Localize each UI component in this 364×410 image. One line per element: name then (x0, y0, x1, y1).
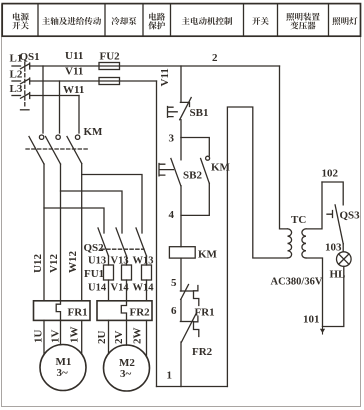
svg-text:KM: KM (198, 249, 218, 261)
wire W11 drop to KM (78, 96, 80, 134)
node L3 lead (12, 95, 21, 97)
motor M2 circle (104, 345, 150, 391)
svg-text:SB1: SB1 (190, 107, 209, 119)
svg-text:2: 2 (212, 52, 218, 64)
wire node 1 (180, 342, 182, 387)
svg-text:SB2: SB2 (183, 170, 202, 182)
svg-text:2U: 2U (96, 331, 108, 345)
wire V11 drop to KM (59, 81, 61, 133)
svg-text:HL: HL (330, 269, 346, 281)
switch QS1 pole 1 blade (21, 63, 30, 69)
fuse FU1-2 (122, 265, 132, 280)
wire TC secondary bottom to node 101 (306, 258, 323, 327)
fuse FU2-1 (99, 63, 120, 70)
wire TC secondary top to node 102 (306, 182, 322, 229)
svg-text:AC380/36V: AC380/36V (271, 277, 323, 288)
svg-text:KM: KM (211, 162, 231, 174)
fuse FU1-1 (104, 265, 114, 280)
header cell: cooling pump label (111, 17, 136, 25)
wire U11 drop to KM (42, 66, 44, 133)
node L2 lead (12, 80, 21, 82)
switch QS1 linkage dashed (24, 62, 26, 108)
svg-text:5: 5 (171, 277, 177, 289)
wire 1U (43, 320, 45, 354)
wire W13 (146, 256, 148, 265)
wire 1V (60, 320, 62, 344)
header cell: main motor control label (182, 17, 232, 25)
wire U12 tap to QS2 (44, 208, 104, 233)
svg-text:W13: W13 (133, 256, 154, 267)
switch QS2 pole 2 blade (116, 228, 127, 256)
switch QS2 linkage dashed (101, 248, 144, 250)
wire V13 (126, 256, 128, 265)
svg-text:U14: U14 (88, 283, 107, 294)
overload relay FR2 heater box (97, 301, 152, 321)
svg-text:V12: V12 (48, 254, 60, 273)
header cell: power switch label (12, 13, 357, 30)
svg-text:U11: U11 (65, 50, 83, 62)
svg-text:103: 103 (325, 242, 342, 254)
svg-text:4: 4 (169, 209, 175, 221)
fuse FU1-3 (142, 265, 152, 280)
header cell: lighting transformer label (286, 13, 320, 21)
wire W14 (146, 280, 148, 301)
wire W12 tap to QS2 (82, 175, 142, 234)
svg-text:V11: V11 (159, 68, 171, 86)
wire 2V (126, 320, 128, 345)
switch QS2 pole 1 blade (98, 228, 109, 256)
header table grid (2, 4, 360, 37)
wire riser to TC primary (227, 107, 287, 387)
svg-text:101: 101 (303, 314, 320, 326)
contactor KM auxiliary contact (201, 156, 210, 183)
wire W12 (81, 164, 83, 301)
node L1 lead (12, 65, 21, 67)
wire W11 (30, 95, 79, 97)
thermal contact FR1 (180, 285, 198, 306)
svg-text:1W: 1W (69, 327, 81, 344)
header cell: lighting lamp label (332, 17, 357, 25)
svg-text:TC: TC (291, 214, 306, 226)
svg-text:QS3: QS3 (340, 210, 361, 222)
wire V11 control drop (156, 81, 158, 387)
thermal contact FR2 (180, 314, 198, 342)
svg-text:6: 6 (171, 305, 177, 317)
wire U12 (43, 164, 45, 301)
wire U11 (30, 65, 280, 67)
svg-text:102: 102 (322, 168, 339, 180)
wire node 102 rail (322, 182, 343, 205)
header cell: spindle & feed drive label (42, 17, 101, 25)
wire node2 to TC primary top (280, 66, 288, 229)
svg-text:W12: W12 (67, 251, 79, 274)
wire lamp to node 101 (323, 266, 344, 326)
contactor KM main pole 3 (67, 135, 82, 164)
svg-text:FU1: FU1 (84, 268, 104, 280)
switch QS3 (327, 205, 343, 244)
header cell: switch label (252, 17, 268, 25)
wire 2W (146, 320, 148, 356)
wire V14 (126, 280, 128, 301)
svg-text:L2: L2 (10, 69, 23, 81)
svg-text:3~: 3~ (120, 368, 132, 380)
svg-text:FR2: FR2 (192, 346, 213, 358)
contactor KM linkage dashed (26, 148, 88, 150)
wire node3 branch to KM aux (181, 138, 209, 157)
header cell: circuit protection label (149, 13, 165, 21)
transformer TC primary winding (288, 229, 292, 258)
svg-text:FR2: FR2 (130, 307, 151, 319)
svg-text:1: 1 (167, 370, 173, 382)
contactor KM main pole 1 (29, 135, 44, 164)
wire V12 tap to QS2 (61, 191, 123, 233)
svg-text:1V: 1V (50, 330, 62, 344)
switch QS1 pole 3 blade (21, 93, 30, 99)
svg-text:U13: U13 (88, 256, 106, 267)
svg-text:V13: V13 (111, 256, 129, 267)
overload relay FR1 heater box (34, 301, 91, 321)
svg-text:W11: W11 (63, 84, 84, 96)
pushbutton SB2 NO contact (159, 138, 181, 186)
wire node 6 (180, 300, 182, 321)
pushbutton SB1 NC contact (168, 98, 192, 120)
svg-text:3: 3 (169, 133, 175, 145)
svg-text:QS1: QS1 (20, 51, 40, 63)
svg-text:FR1: FR1 (68, 307, 88, 319)
wire QS3 to lamp (342, 244, 344, 252)
svg-text:V14: V14 (111, 283, 130, 294)
ground symbol node 101 (320, 327, 325, 335)
svg-text:2W: 2W (132, 328, 144, 345)
svg-text:3~: 3~ (57, 367, 69, 379)
wire V11 (30, 80, 157, 82)
svg-text:1U: 1U (33, 330, 45, 344)
svg-text:L3: L3 (10, 83, 23, 95)
wire U13 (108, 256, 110, 265)
wire KM aux to node 4 (181, 183, 209, 215)
wire U14 (108, 280, 110, 301)
wire bottom rail node 1 (157, 386, 228, 388)
wire 2U (108, 320, 110, 353)
svg-text:2V: 2V (113, 331, 125, 345)
contactor KM main pole 2 (46, 135, 61, 164)
wire SB1 to node 3 (180, 120, 182, 138)
wire 1W (81, 320, 83, 354)
wire V12 (60, 164, 62, 301)
svg-text:W14: W14 (133, 283, 155, 294)
svg-text:KM: KM (84, 126, 104, 138)
coil KM (169, 247, 195, 258)
switch QS2 pole 3 blade (136, 228, 147, 256)
svg-text:V11: V11 (65, 66, 83, 78)
transformer TC secondary winding (302, 229, 306, 258)
wire node 5 (180, 258, 182, 291)
wire node2 drop to SB1 (180, 66, 182, 102)
lamp HL (337, 252, 352, 267)
fuse FU2-2 (99, 78, 120, 85)
motor M1 circle (40, 345, 86, 391)
svg-text:FU2: FU2 (100, 51, 121, 63)
svg-text:QS2: QS2 (84, 242, 105, 254)
svg-text:U12: U12 (32, 254, 44, 273)
switch QS1 pole 2 blade (21, 78, 30, 84)
svg-text:FR1: FR1 (195, 307, 215, 319)
wire SB2 to node 4 (180, 186, 182, 247)
